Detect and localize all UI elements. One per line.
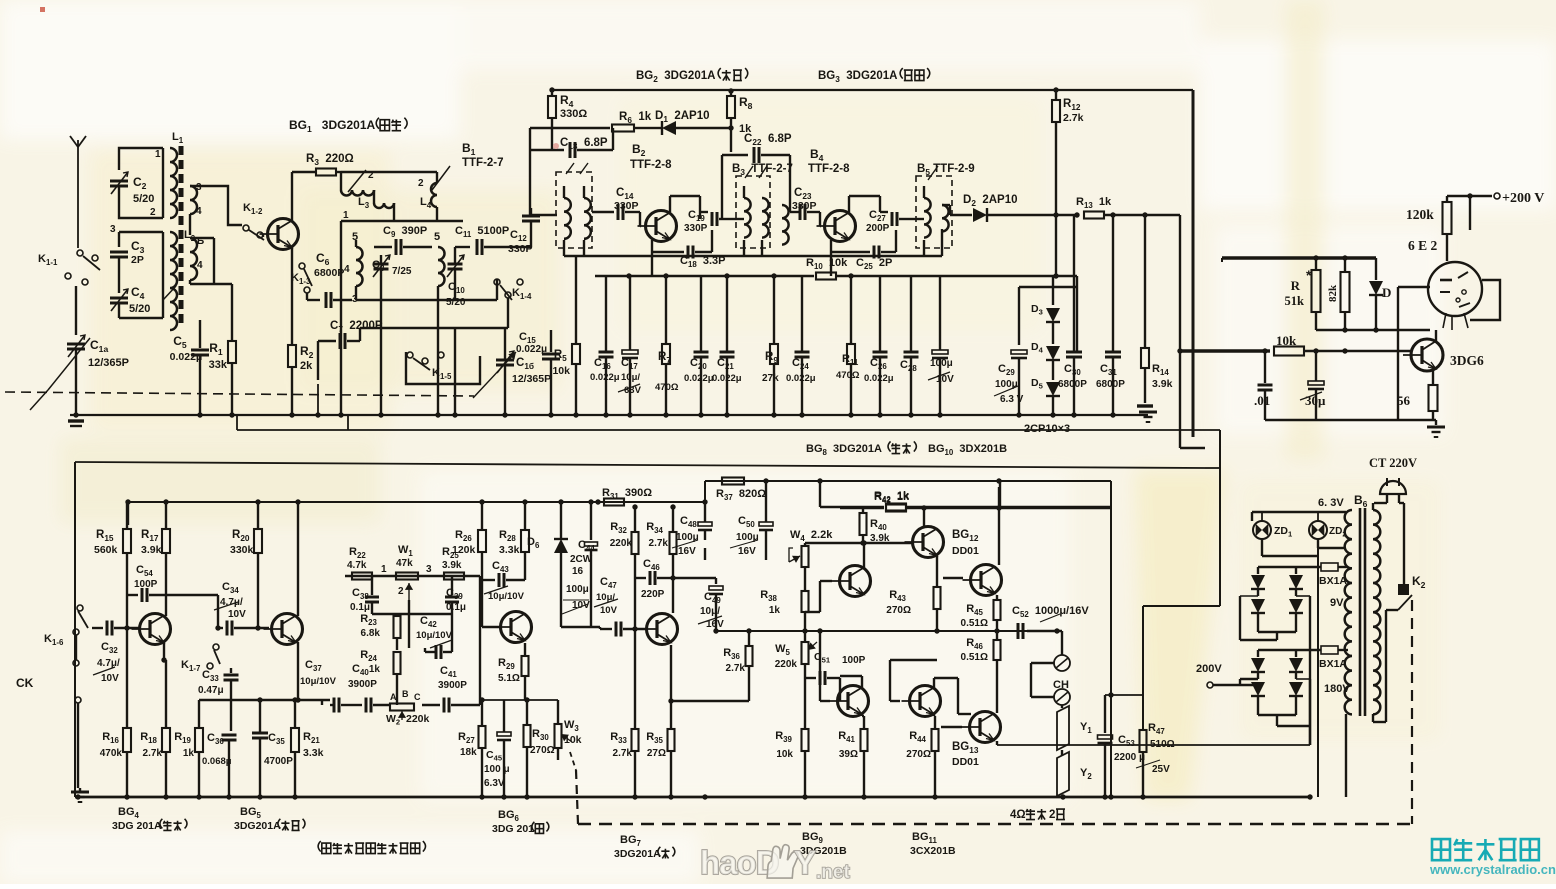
wire L2 secondary tap (190, 237, 214, 239)
svg-text:R10 10k: R10 10k (806, 257, 848, 271)
svg-text:BG4: BG4 (118, 806, 142, 820)
svg-text:0.022μ: 0.022μ (864, 373, 894, 384)
wire down from loop (340, 221, 342, 415)
wire D3 stack top (1052, 276, 1054, 305)
watermark crystalradio chinese (1432, 839, 1450, 860)
lamp ZD2 (1309, 521, 1327, 539)
svg-text:51k: 51k (1285, 294, 1305, 308)
resistor R5 10k (575, 256, 577, 344)
svg-text:100μ: 100μ (736, 532, 759, 543)
svg-text:B1: B1 (462, 141, 479, 157)
inductor MW osc coil A (356, 247, 363, 286)
fuse BX1A lower (1321, 646, 1338, 654)
svg-text:3.3k: 3.3k (303, 747, 324, 759)
wire BG4 collector (163, 642, 165, 660)
resistor 82k vertical (1344, 258, 1346, 272)
wire bg8 collector to upper mid base (863, 543, 865, 568)
capacitor C17 10u 63V electrolytic (629, 276, 631, 350)
svg-text:3DG201A: 3DG201A (234, 820, 283, 832)
svg-text:4: 4 (344, 264, 350, 275)
transistor BG6 (501, 612, 532, 643)
svg-text:D5: D5 (1031, 377, 1046, 391)
svg-text:R4: R4 (560, 93, 577, 109)
svg-text:D3: D3 (1031, 303, 1046, 317)
transistor 3DG6 (1411, 339, 1443, 371)
resistor R26 120k (481, 502, 483, 530)
svg-text:100P: 100P (842, 655, 866, 666)
wire detector vertical 1056 (1055, 215, 1057, 276)
resistor R19 1k (198, 700, 200, 728)
svg-text:R: R (1291, 278, 1301, 293)
ground under R14 (1137, 404, 1153, 407)
wire B3 leads (743, 186, 745, 198)
svg-text:510Ω: 510Ω (1150, 739, 1175, 750)
svg-text:10μ/10V: 10μ/10V (416, 630, 453, 641)
wire audio top bus (128, 501, 705, 503)
svg-text:100μ: 100μ (995, 379, 1018, 390)
wire antenna down-lead (77, 162, 79, 248)
svg-text:470Ω: 470Ω (655, 382, 679, 393)
capacitor C3 2P (110, 251, 128, 254)
tube 6E2 (1428, 262, 1482, 316)
svg-text:6800P: 6800P (1058, 379, 1087, 390)
junction dots on power amp bus (763, 478, 768, 483)
svg-text:D6: D6 (527, 536, 542, 550)
svg-text:R5: R5 (554, 349, 570, 363)
resistor R1 33k (231, 284, 233, 341)
resistor R18 2.7k (165, 660, 167, 728)
wire row tops (564, 255, 942, 257)
wire L1 secondary leads (190, 186, 228, 205)
svg-text:2: 2 (368, 170, 374, 181)
dashed AGC line (5, 392, 474, 396)
svg-text:0.022μ: 0.022μ (590, 372, 620, 383)
wire zd2 down rail (1317, 548, 1319, 797)
svg-text:R3 220Ω: R3 220Ω (306, 153, 354, 167)
svg-text:BX1A: BX1A (1319, 658, 1347, 670)
wire R8 node (728, 125, 733, 130)
svg-text:6.3 V: 6.3 V (1000, 394, 1024, 405)
wire c7 line to k15 box (360, 327, 508, 329)
svg-text:.01: .01 (1254, 393, 1270, 408)
wire BG3 base (819, 212, 821, 226)
resistor R14 3.9k (1144, 215, 1146, 348)
transformer B1 dashed box (556, 172, 592, 248)
svg-text:C: C (414, 692, 421, 702)
wire plus 200V (1447, 195, 1492, 197)
capacitor C31 6800P (1112, 215, 1114, 352)
plug CT220V (1380, 481, 1406, 494)
resistor R8 1k (730, 90, 732, 96)
wire R4 node down (551, 128, 553, 150)
wire C1a down (75, 349, 77, 415)
transformer B3 dashed box (736, 176, 770, 248)
svg-text:2: 2 (418, 178, 424, 189)
svg-text:2P: 2P (131, 254, 144, 266)
wire power amp top bus (705, 480, 1111, 482)
wire volume to 10k (1264, 349, 1270, 352)
capacitor 30u (1315, 351, 1317, 381)
wire bridge outputs (1276, 632, 1278, 640)
wire C43 to BG6 base (481, 580, 483, 627)
svg-text:R6 1k: R6 1k (619, 111, 652, 125)
svg-text:CK: CK (16, 676, 34, 690)
svg-text:BG2 3DG201A: BG2 3DG201A (636, 70, 718, 84)
fuse BX1A upper (1321, 563, 1338, 571)
wire plug leads (1386, 494, 1388, 503)
svg-text:2200 μ: 2200 μ (1114, 752, 1145, 763)
ground at right end of RF ground bus (1139, 411, 1157, 414)
wire grid return vertical (1397, 287, 1399, 420)
trimmer arrow on L3 (348, 170, 366, 192)
svg-text:B: B (402, 689, 409, 699)
capacitor C5 0.022u (199, 330, 201, 348)
svg-text:3DG 201A: 3DG 201A (112, 820, 164, 832)
svg-text:200V: 200V (1196, 663, 1222, 675)
svg-text:A: A (390, 692, 397, 702)
wire emitter BG2 down (651, 252, 653, 276)
inductor L1 primary winding (170, 148, 177, 218)
svg-text:B6: B6 (1354, 493, 1371, 509)
transistor upper mid (913, 527, 944, 558)
capacitor C16 0.022 (605, 276, 607, 352)
ground left end (68, 419, 84, 422)
transistor BG7 (647, 614, 678, 645)
wire BG2 base link (639, 212, 641, 226)
svg-text:3.3k: 3.3k (499, 544, 520, 556)
wire d6 c44 bottom to bg7 base line (561, 626, 600, 628)
svg-text:0.1μ: 0.1μ (446, 602, 466, 613)
svg-text:100μ: 100μ (566, 584, 589, 595)
inductor L2 primary winding (170, 232, 177, 330)
svg-text:0.51Ω: 0.51Ω (961, 652, 988, 663)
junction dots on bottom bus (75, 794, 80, 799)
transformer B6 core (1359, 508, 1362, 716)
transformer B6 secondary winding (1345, 510, 1352, 714)
wire nfb mid rail (716, 630, 1062, 632)
svg-text:82k: 82k (1327, 284, 1339, 302)
svg-text:470Ω: 470Ω (836, 370, 860, 381)
svg-text:DD01: DD01 (952, 756, 979, 768)
svg-text:330k: 330k (230, 544, 254, 556)
junction dots on RF ground bus (73, 412, 78, 417)
capacitor C28 (910, 276, 912, 352)
svg-text:3CX201B: 3CX201B (910, 845, 956, 857)
capacitor .01 (1264, 351, 1266, 383)
svg-text:C9 390P: C9 390P (383, 225, 427, 239)
svg-text:BG8 3DG201A: BG8 3DG201A (806, 443, 885, 457)
svg-text:.net: .net (816, 862, 850, 883)
svg-text:9V: 9V (1330, 597, 1344, 609)
wire volume takeoff thick (1177, 348, 1182, 353)
svg-text:B2: B2 (632, 142, 649, 158)
svg-text:3.9k: 3.9k (442, 560, 462, 571)
transistor BG11 lower mid (910, 686, 941, 717)
wire right vertical to audio (1179, 215, 1181, 448)
svg-text:25V: 25V (1152, 764, 1170, 775)
bridge rectifier 2 (1258, 649, 1304, 651)
wire upper loop2 (119, 231, 163, 233)
wire K1-1 to ground rail (75, 286, 77, 335)
svg-text:TTF-2-7: TTF-2-7 (462, 157, 504, 169)
svg-text:5: 5 (434, 231, 440, 243)
resistor R21 3.3k (294, 700, 296, 728)
svg-text:DD01: DD01 (952, 545, 979, 557)
svg-text:W1: W1 (398, 544, 416, 558)
wire bg12 base link (943, 577, 963, 579)
svg-text:3.9k: 3.9k (870, 533, 890, 544)
resistor R17 3.9k (165, 502, 167, 529)
svg-text:2CP10×3: 2CP10×3 (1024, 423, 1070, 435)
svg-text:D: D (1382, 285, 1391, 300)
svg-text:ZD1: ZD1 (1274, 525, 1295, 539)
resistor R2 2k (288, 345, 296, 367)
capacitor C16 variable 12/365P (496, 359, 514, 362)
svg-text:W3: W3 (564, 719, 582, 733)
svg-text:3DG 201: 3DG 201 (492, 823, 537, 835)
wire upper mid collector (923, 508, 925, 527)
wire emitter row (482, 699, 558, 701)
capacitor C29 100u 6.3V (1011, 350, 1027, 354)
wire secondary horizontal line under ground bus (237, 429, 1220, 431)
speaker Y2 (1057, 752, 1069, 796)
ground bottom left (79, 788, 81, 792)
wire top supply bus (552, 89, 1193, 91)
wire k16 lead (75, 635, 77, 660)
svg-text:W4 2.2k: W4 2.2k (790, 529, 833, 543)
svg-text:1: 1 (381, 564, 387, 575)
wire tone right vertical (479, 576, 481, 705)
svg-text:R1: R1 (209, 341, 226, 357)
wire 3DG6 collector to tube (1435, 330, 1437, 342)
svg-text:120k: 120k (452, 544, 476, 556)
jack CH lower (1054, 689, 1070, 705)
svg-text:D2 2AP10: D2 2AP10 (963, 194, 1018, 208)
wire driver base R38 node (820, 580, 832, 582)
wire B5 leads (912, 218, 924, 220)
svg-text:10μ/10V: 10μ/10V (488, 591, 525, 602)
wire 6.3V winding taps (1252, 511, 1346, 513)
svg-text:3900P: 3900P (438, 680, 467, 691)
capacitor C36 0.068u (222, 734, 237, 737)
junction dots misc (295, 697, 300, 702)
svg-text:3: 3 (196, 182, 202, 193)
label band switch note (318, 841, 321, 852)
inductor L1 secondary winding (190, 186, 197, 214)
svg-text:1: 1 (343, 210, 349, 221)
resistor R15 560k (123, 529, 131, 553)
svg-text:6.3V: 6.3V (484, 778, 505, 789)
capacitor 100u 10V electrolytic (939, 276, 941, 350)
svg-text:W2 220k: W2 220k (386, 713, 430, 727)
wire L3 L4 top loop (341, 171, 437, 173)
wire grid line (1316, 329, 1430, 331)
svg-text:220P: 220P (641, 589, 665, 600)
wire B1 leads (531, 214, 557, 216)
svg-text:4.7μ/: 4.7μ/ (97, 658, 120, 669)
wire c52 to jacks (1027, 630, 1062, 632)
svg-text:120k: 120k (1406, 207, 1434, 222)
transformer B1 windings (564, 198, 571, 239)
svg-text:100μ: 100μ (676, 532, 699, 543)
wire BG1 emitter down (291, 247, 293, 345)
svg-text:0.022μ: 0.022μ (170, 351, 203, 363)
wire C12 to B1 (530, 214, 532, 216)
transistor BG13 output lower (970, 712, 1001, 743)
svg-text:R42 1k: R42 1k (874, 491, 910, 505)
svg-text:K2: K2 (1412, 574, 1429, 590)
svg-text:R9: R9 (765, 351, 781, 365)
bridge rectifier 1 (1258, 566, 1304, 568)
svg-text:16: 16 (572, 566, 584, 577)
svg-text:330P: 330P (684, 223, 708, 234)
svg-text:C25 2P: C25 2P (856, 257, 892, 271)
svg-text:R13 1k: R13 1k (1076, 196, 1112, 210)
wire lamp loop (1251, 512, 1253, 521)
svg-text:TTF-2-8: TTF-2-8 (808, 163, 850, 175)
resistor R35 27 (670, 701, 672, 729)
svg-text:2CW: 2CW (570, 554, 593, 565)
wire to k14 down (496, 279, 498, 300)
svg-text:18k: 18k (460, 747, 477, 758)
resistor R16 470k (126, 663, 128, 728)
wire left frame vertical (74, 462, 76, 797)
wire tone mid (372, 613, 452, 615)
wire right rail from R42 line (1110, 508, 1112, 797)
svg-text:4700P: 4700P (264, 756, 293, 767)
transistor BG3 (825, 211, 856, 242)
lamp ZD1 (1253, 521, 1271, 539)
svg-text:D4: D4 (1031, 341, 1046, 355)
svg-text:330Ω: 330Ω (560, 108, 587, 120)
svg-text:10μ/: 10μ/ (700, 606, 720, 617)
resistor R20 330k (257, 502, 259, 529)
svg-text:BG6: BG6 (498, 809, 522, 823)
resistor R9 27k (773, 276, 775, 344)
svg-text:CT 220V: CT 220V (1369, 456, 1417, 470)
svg-text:270Ω: 270Ω (886, 605, 911, 616)
wire BG5 leads (297, 502, 299, 616)
svg-text:TTF-2-8: TTF-2-8 (630, 159, 672, 171)
wire lower stage interconnect (820, 700, 830, 702)
svg-text:10μ/10V: 10μ/10V (300, 676, 337, 687)
junction dots on top supply bus (549, 87, 554, 92)
svg-text:560k: 560k (94, 544, 118, 556)
wire k15 link (317, 341, 319, 380)
svg-text:4.7k: 4.7k (347, 560, 367, 571)
svg-text:6. 3V: 6. 3V (1318, 497, 1344, 509)
capacitor C10 variable 5/20 (448, 263, 463, 266)
svg-text:BX1A: BX1A (1319, 575, 1347, 587)
tube pins (1443, 313, 1446, 328)
svg-text:0.022μ: 0.022μ (712, 373, 742, 384)
svg-text:27k: 27k (762, 373, 779, 384)
svg-text:+200 V: +200 V (1502, 191, 1544, 206)
capacitor C24 0.022u (801, 276, 803, 352)
svg-text:470k: 470k (100, 748, 123, 759)
red speck top left (40, 7, 45, 12)
svg-text:2.7k: 2.7k (649, 538, 669, 549)
transistor BG1 (268, 219, 299, 250)
svg-text:C2: C2 (133, 175, 150, 191)
svg-text:47k: 47k (396, 558, 413, 569)
resistor R32 220k (634, 507, 636, 532)
svg-text:3: 3 (110, 224, 116, 235)
terminal CK circles (73, 660, 79, 666)
trimmer arrow on L4 (432, 166, 450, 190)
wire C46 verticals (634, 578, 636, 629)
svg-text:12/365P: 12/365P (512, 373, 551, 385)
resistor R11 470 (850, 276, 852, 344)
svg-text:0.022μ: 0.022μ (684, 373, 714, 384)
wire ground bus of RF section (70, 414, 1148, 416)
inductor L2 secondary winding (190, 238, 197, 280)
wire bottom power lines (1309, 679, 1311, 745)
svg-text:2: 2 (150, 207, 156, 218)
speaker Y1 (1057, 706, 1069, 750)
svg-text:3900P: 3900P (348, 679, 377, 690)
transformer B5 windings (924, 198, 931, 238)
wire R15 column to base (126, 595, 128, 663)
svg-text:2.7k: 2.7k (1063, 112, 1084, 124)
wire bottom tube gnd line (1265, 419, 1436, 421)
svg-text:3DG201A: 3DG201A (614, 848, 663, 860)
svg-text:www.crystalradio.cn: www.crystalradio.cn (1429, 862, 1556, 877)
svg-text:R7: R7 (658, 351, 674, 365)
svg-text:2k: 2k (300, 360, 313, 372)
wire tube right loop (1469, 196, 1471, 230)
svg-text:0.1μ: 0.1μ (350, 602, 370, 613)
svg-text:1k: 1k (183, 748, 195, 759)
resistor R33 2.7k (634, 629, 636, 729)
svg-text:39Ω: 39Ω (839, 749, 858, 760)
wire transformer secondary taps (1347, 583, 1349, 585)
transformer B6 primary winding (1373, 510, 1380, 714)
svg-text:W5: W5 (775, 643, 793, 657)
svg-text:1k: 1k (769, 605, 781, 616)
svg-text:Y: Y (794, 844, 816, 881)
wire secondary bottom drop (1345, 714, 1347, 797)
switch K1-5 box (406, 352, 480, 384)
wire BG3 collector (848, 196, 850, 212)
svg-text:3: 3 (426, 564, 432, 575)
svg-text:0.47μ: 0.47μ (198, 685, 224, 696)
svg-text:0.51Ω: 0.51Ω (961, 618, 988, 629)
transistor BG5 (272, 614, 303, 645)
wire BG7 emitter (670, 645, 672, 701)
svg-text:10k: 10k (552, 365, 570, 377)
capacitor C30 6800P (1073, 215, 1075, 352)
svg-text:10V: 10V (101, 673, 119, 684)
svg-text:C5: C5 (173, 334, 190, 350)
svg-text:C22 6.8P: C22 6.8P (744, 133, 792, 147)
svg-text:B4: B4 (810, 147, 827, 163)
svg-text:16V: 16V (678, 546, 696, 557)
svg-text:5/20: 5/20 (129, 303, 150, 315)
svg-text:220k: 220k (775, 659, 798, 670)
wire emitter BG3 down (830, 252, 832, 276)
resistor R4 330 ohm (551, 90, 553, 96)
svg-text:BG9: BG9 (802, 831, 826, 845)
wire ant branch (102, 147, 104, 149)
capacitor C26 0.022u (879, 276, 881, 352)
capacitor C20 0.022u (700, 276, 702, 352)
svg-text:3DG6: 3DG6 (1450, 353, 1484, 368)
svg-text:27Ω: 27Ω (647, 748, 666, 759)
pink speck (553, 143, 559, 149)
wire antenna to loop top (119, 148, 163, 170)
wire B4 to C23 (790, 211, 800, 213)
